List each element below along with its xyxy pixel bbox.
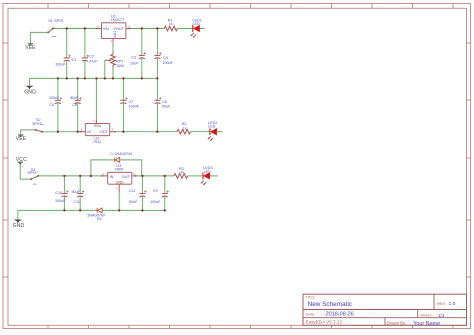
svg-text:SPST: SPST [54, 19, 64, 23]
svg-text:EasyEDA V5.7.22: EasyEDA V5.7.22 [306, 320, 343, 325]
svg-text:OUT: OUT [122, 175, 131, 179]
svg-text:100uF: 100uF [150, 200, 161, 204]
svg-text:100uF: 100uF [55, 62, 66, 66]
svg-text:VOUT: VOUT [113, 27, 124, 31]
svg-text:50uF: 50uF [70, 96, 79, 100]
svg-text:C6: C6 [72, 103, 77, 107]
svg-text:C10: C10 [55, 191, 62, 195]
svg-text:1k: 1k [169, 22, 173, 26]
svg-text:LED: LED [193, 22, 201, 26]
svg-text:New Schematic: New Schematic [308, 301, 353, 308]
svg-text:LED: LED [204, 170, 212, 174]
svg-text:GND: GND [24, 89, 36, 95]
svg-text:C5: C5 [49, 103, 54, 107]
svg-text:50uF: 50uF [129, 200, 138, 204]
svg-text:2018-08-26: 2018-08-26 [326, 312, 354, 318]
svg-text:50uF: 50uF [72, 190, 81, 194]
svg-text:D2: D2 [97, 217, 102, 221]
svg-text:100uF: 100uF [55, 199, 66, 203]
svg-text:VIN: VIN [103, 27, 110, 31]
svg-text:C7: C7 [129, 100, 134, 104]
svg-text:Sheet:: Sheet: [420, 313, 432, 318]
svg-text:1k: 1k [183, 127, 187, 131]
svg-text:1N4007W: 1N4007W [114, 151, 132, 156]
svg-text:R2: R2 [182, 122, 187, 126]
svg-text:GND: GND [94, 124, 102, 128]
svg-text:OUT: OUT [100, 130, 109, 134]
svg-text:IN: IN [110, 175, 114, 179]
svg-text:VEE: VEE [16, 136, 27, 142]
svg-text:LM317T: LM317T [111, 18, 125, 22]
svg-text:C11: C11 [73, 200, 80, 204]
svg-text:100uF: 100uF [162, 61, 173, 65]
svg-text:C2: C2 [89, 55, 94, 59]
svg-text:C1: C1 [72, 58, 77, 62]
svg-text:VEE: VEE [25, 45, 36, 51]
svg-text:1k: 1k [181, 171, 185, 175]
svg-text:Drawn By:: Drawn By: [387, 321, 406, 326]
svg-text:1.0: 1.0 [449, 301, 456, 307]
svg-text:50uF: 50uF [162, 104, 171, 108]
svg-text:47uF: 47uF [89, 59, 98, 63]
svg-text:Your Name: Your Name [413, 321, 440, 327]
svg-text:C9: C9 [153, 189, 158, 193]
svg-text:GND: GND [116, 181, 124, 185]
svg-text:Date:: Date: [306, 311, 316, 316]
svg-text:C3: C3 [131, 56, 136, 60]
svg-text:C8: C8 [162, 100, 167, 104]
svg-text:C12: C12 [129, 189, 136, 193]
svg-text:100K: 100K [116, 64, 125, 68]
svg-text:1/1: 1/1 [438, 313, 445, 319]
svg-text:100uF: 100uF [129, 104, 140, 108]
svg-text:10uF: 10uF [130, 62, 139, 66]
svg-text:LED: LED [208, 125, 216, 129]
svg-text:GND: GND [13, 223, 25, 229]
svg-text:ADJ: ADJ [113, 31, 117, 38]
svg-text:100uF: 100uF [49, 96, 60, 100]
svg-text:7805: 7805 [115, 166, 124, 171]
svg-text:IN: IN [87, 130, 91, 134]
svg-text:C4: C4 [163, 56, 168, 60]
svg-text:7912: 7912 [93, 139, 102, 144]
svg-text:SPST: SPST [27, 171, 37, 175]
svg-text:S1: S1 [48, 19, 53, 23]
svg-text:REV:: REV: [437, 301, 446, 306]
svg-text:TITLE:: TITLE: [306, 296, 316, 300]
